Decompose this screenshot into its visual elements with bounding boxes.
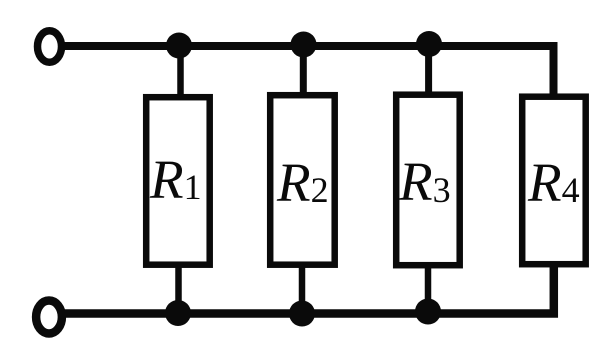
wire top bus bbox=[64, 46, 554, 97]
wire R2 bottom stub bbox=[299, 264, 306, 313]
resistor R2 body bbox=[270, 95, 335, 265]
junction node B (top of R2) bbox=[291, 32, 317, 58]
junction node D (bottom of R1) bbox=[165, 300, 191, 326]
junction node E (bottom of R2) bbox=[289, 301, 315, 327]
wire bottom bus bbox=[65, 263, 554, 314]
wire R3 bottom stub bbox=[425, 264, 432, 312]
resistor R3 body bbox=[396, 95, 460, 266]
terminal T1 (top-left input) bbox=[38, 31, 62, 63]
wire R3 top stub bbox=[425, 44, 432, 96]
resistor R4 body bbox=[522, 97, 586, 265]
wire R1 bottom stub bbox=[175, 264, 182, 313]
junction node A (top of R1) bbox=[166, 33, 192, 59]
wire R1 top stub bbox=[177, 45, 184, 97]
junction node C (top of R3) bbox=[416, 31, 442, 57]
terminal T2 (bottom-left input) bbox=[36, 301, 62, 334]
wire R2 top stub bbox=[300, 44, 307, 97]
resistor R1 body bbox=[146, 97, 210, 265]
junction node F (bottom of R3) bbox=[415, 299, 441, 325]
